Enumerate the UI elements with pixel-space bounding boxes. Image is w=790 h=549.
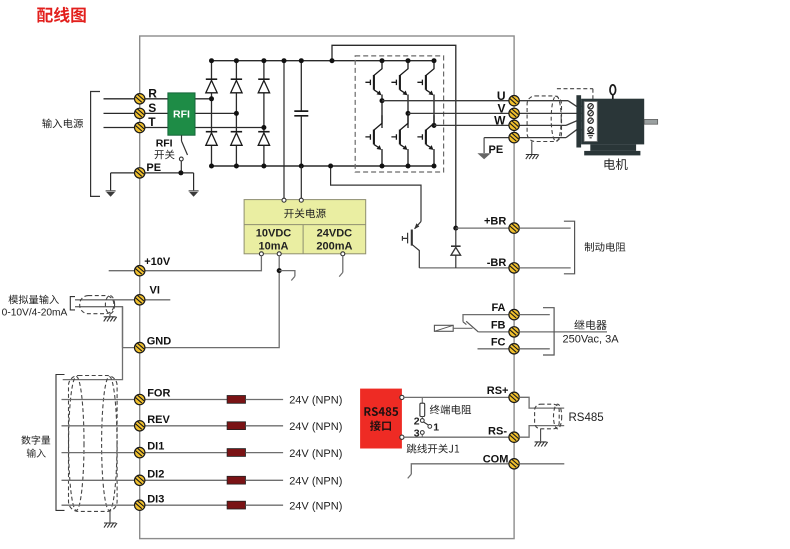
label 24VDC [317, 228, 353, 240]
digital bracket [56, 375, 65, 511]
label 24V (NPN) 1 [289, 395, 342, 407]
label 10VDC [256, 228, 292, 240]
wire phase drop col1 [381, 101, 383, 128]
RS485 pin + [400, 395, 404, 399]
svg-text:10mA: 10mA [259, 240, 289, 252]
wire PE right drop [193, 173, 195, 190]
terminal DI1 [135, 447, 145, 457]
label 终端电阻 [430, 405, 471, 415]
motor flange [576, 95, 581, 147]
relay contact blade [466, 321, 478, 332]
wire analog shield drain [109, 314, 111, 317]
label 继电器 [574, 320, 606, 330]
wire digital shield gnd [109, 511, 111, 522]
label T [148, 115, 156, 129]
diode D1 (upper) [206, 79, 217, 93]
label PE (output) [489, 144, 504, 156]
terminal FB [509, 327, 519, 337]
wire pin3 drop [421, 434, 423, 437]
wire cap top [300, 61, 302, 111]
terminal -BR [509, 263, 519, 273]
label +BR [484, 216, 506, 228]
wire W kink [566, 121, 589, 126]
svg-text:S: S [148, 101, 156, 115]
label 0-10V/4-20mA [2, 307, 68, 318]
IGBT Q1 (upper) [365, 61, 382, 101]
wire PE left drop [110, 173, 112, 190]
svg-text:PE: PE [489, 144, 504, 156]
terminal PE out [509, 132, 519, 142]
label S [148, 101, 156, 115]
wire FOR [62, 399, 228, 401]
IGBT Q6 (lower) [417, 115, 434, 166]
IGBT Q3 (upper) [417, 61, 434, 126]
title text 配线图 [37, 7, 85, 23]
svg-text:DI2: DI2 [147, 468, 164, 480]
label pin 2 [414, 416, 420, 428]
motor terminal 2 [588, 111, 593, 116]
svg-text:DI1: DI1 [147, 441, 164, 453]
terminal resistor [420, 397, 425, 418]
svg-text:FB: FB [491, 319, 506, 331]
junction phase out 2 [406, 111, 411, 116]
jumper blade [424, 422, 429, 425]
terminal COM [509, 459, 519, 469]
wire -BR [419, 267, 509, 269]
wire -BR ext [519, 267, 571, 269]
wire FB left [478, 331, 509, 333]
analog shield [80, 296, 115, 314]
brake diode D7 [451, 228, 461, 268]
label 制动电阻 [585, 242, 626, 252]
wire FC ext [519, 348, 550, 350]
resistor RDI1 [227, 449, 245, 457]
analog bracket [70, 297, 75, 310]
IGBT Q5 (lower) [391, 115, 408, 166]
label 电机 [605, 159, 628, 171]
input bracket [91, 92, 100, 197]
label 跳线开关J1 [407, 444, 459, 454]
junction phase 3 [261, 125, 266, 130]
inverter dashed box [355, 56, 443, 172]
wire diode column 1 [211, 61, 213, 166]
svg-text:RS+: RS+ [487, 385, 509, 397]
terminal VI [135, 295, 145, 305]
label FB [491, 319, 506, 331]
terminal T [135, 122, 145, 132]
terminal W [509, 120, 519, 130]
terminal DI3 [135, 500, 145, 510]
drive enclosure box [140, 36, 514, 539]
wire +BR ext [519, 227, 571, 229]
terminal U [509, 96, 519, 106]
svg-text:FOR: FOR [147, 388, 170, 400]
label 250Vac 3A [562, 334, 619, 346]
diode D3 (upper) [258, 79, 269, 93]
junction DC+ col3 [261, 58, 266, 63]
ground PE left [106, 191, 116, 197]
wire 10V common [123, 256, 280, 348]
wire T [104, 127, 168, 129]
label 接口 [370, 421, 391, 432]
junction cap DC+ [299, 58, 304, 63]
junction inverter DC- col1 [380, 164, 385, 169]
label DI3 [147, 493, 164, 505]
wire FB ext [519, 331, 607, 333]
svg-text:24VDC: 24VDC [317, 228, 353, 240]
svg-text:T: T [148, 115, 156, 129]
terminal RS+ [509, 392, 519, 402]
svg-text:RS-: RS- [488, 426, 507, 438]
label 数字量 [21, 435, 50, 444]
junction phase 2 [234, 111, 239, 116]
RFI switch [179, 135, 187, 170]
label +10V [144, 256, 171, 268]
wire U [382, 100, 568, 102]
PSU input pin A [282, 198, 286, 202]
PSU output pin 10V-com [277, 252, 281, 256]
RFI filter block [168, 93, 195, 135]
svg-text:VI: VI [150, 285, 160, 297]
digital shield [69, 376, 118, 512]
terminal +10V [135, 266, 145, 276]
motor body [581, 99, 644, 145]
junction DC+ col2 [234, 58, 239, 63]
PSU input pin B [299, 198, 303, 202]
wire diode column 2 [235, 61, 237, 166]
wire PE row [111, 172, 194, 174]
wire VI [75, 299, 170, 301]
label R [148, 86, 157, 100]
svg-text:DI3: DI3 [147, 493, 164, 505]
junction DC- col3 [261, 164, 266, 169]
label RFI 开关 (RFI switch) [155, 138, 175, 160]
svg-text:RFI: RFI [156, 138, 173, 150]
PSU block 开关电源 [244, 200, 366, 254]
label 200mA [316, 240, 352, 252]
label DI2 [147, 468, 164, 480]
svg-text:24V (NPN): 24V (NPN) [289, 476, 342, 488]
wire common tap hook [279, 271, 295, 281]
svg-text:0-10V/4-20mA: 0-10V/4-20mA [2, 307, 68, 318]
resistor RFOR [227, 396, 245, 404]
terminal FC [509, 344, 519, 354]
wire PSU feed A [283, 61, 285, 199]
wire V [408, 112, 585, 114]
wire brake collector [331, 166, 421, 222]
wire COM ext [519, 463, 564, 465]
wire shield drain [531, 142, 533, 155]
svg-text:W: W [494, 114, 506, 128]
resistor RDI3 [227, 501, 245, 509]
label pin 1 [433, 422, 439, 434]
brake IGBT Q7 [402, 222, 421, 268]
label FC [491, 336, 506, 348]
terminal FA [509, 309, 519, 319]
svg-text:REV: REV [147, 414, 170, 426]
junction feed A [282, 58, 287, 63]
label 24V (NPN) 2 [289, 421, 342, 433]
junction DC- brake [328, 164, 333, 169]
wire R to bridge [195, 98, 212, 100]
label REV [147, 414, 170, 426]
motor base [584, 151, 640, 156]
label 输入电源 [42, 119, 83, 129]
svg-text:24V (NPN): 24V (NPN) [289, 500, 342, 512]
wire REV right [246, 425, 284, 427]
wire RS485 shield drain [540, 429, 542, 442]
wire PE motor [484, 137, 566, 139]
svg-text:COM: COM [483, 453, 509, 465]
motor terminal plate [584, 102, 597, 142]
label 模拟量输入 [9, 295, 59, 304]
junction cap DC- [299, 164, 304, 169]
wire S [104, 112, 168, 114]
relay coil [434, 325, 472, 331]
label COM [483, 453, 509, 465]
wire R [104, 98, 168, 100]
wire DI3 right [246, 504, 284, 506]
terminal PE in [135, 168, 145, 178]
wire +10V [109, 256, 262, 271]
wire DI1 [62, 452, 228, 454]
svg-text:GND: GND [147, 335, 172, 347]
resistor RDI2 [227, 476, 245, 484]
shield link to motor [557, 89, 593, 99]
label V [497, 102, 505, 116]
wire FOR right [246, 399, 284, 401]
wire diode column 3 [263, 61, 265, 166]
svg-text:PE: PE [146, 162, 161, 174]
label RS485 (block) [364, 407, 398, 416]
ground RS485 shield [535, 442, 548, 447]
svg-text:FC: FC [491, 336, 506, 348]
label -BR [487, 257, 507, 269]
wire RS+ ext [519, 397, 564, 408]
svg-text:RFI: RFI [173, 109, 190, 121]
terminal GND [135, 342, 145, 352]
terminal +BR [509, 223, 519, 233]
wire RS- ext [519, 426, 564, 438]
wire DC+ rail [332, 45, 456, 228]
wire DI2 right [246, 479, 284, 481]
PSU output pin 10V [259, 252, 263, 256]
svg-text:+10V: +10V [144, 256, 171, 268]
wire W [434, 124, 566, 126]
wire DI1 right [246, 452, 284, 454]
diode D2 (upper) [231, 79, 242, 93]
label FA [491, 302, 505, 314]
capacitor C1 [294, 111, 308, 116]
junction phase out 3 [432, 123, 437, 128]
wire DI3 [62, 504, 228, 506]
label U [497, 89, 506, 103]
svg-text:24V (NPN): 24V (NPN) [289, 421, 342, 433]
brake resistor bracket [564, 221, 575, 274]
DC+ bus [212, 60, 435, 62]
junction DC+ rail [330, 58, 335, 63]
PE arrow symbol [477, 138, 490, 160]
terminal FOR [135, 394, 145, 404]
wire S to bridge [195, 112, 236, 114]
wire COM left [408, 464, 509, 479]
diode D5 (lower) [231, 132, 242, 146]
label 开关电源 [284, 208, 326, 218]
ground digital shield [104, 523, 117, 528]
label FOR [147, 388, 170, 400]
wire RS+ row [404, 396, 509, 398]
motor terminal 4 [588, 127, 593, 132]
jumper pin 2 [420, 419, 424, 423]
jumper pin 1 [428, 425, 432, 429]
svg-text:24V (NPN): 24V (NPN) [289, 395, 342, 407]
DC- bus [212, 165, 435, 167]
wire U kink [568, 101, 589, 107]
junction +BR [453, 226, 458, 231]
motor cable shield [527, 96, 561, 142]
label 输入 [27, 449, 46, 458]
wire 24V output [339, 256, 343, 277]
svg-text:2: 2 [414, 416, 420, 428]
terminal S [135, 108, 145, 118]
svg-text:250Vac, 3A: 250Vac, 3A [562, 334, 619, 346]
ground RFI switch [189, 191, 199, 197]
junction inverter DC- col2 [406, 164, 411, 169]
RS485 pin - [400, 435, 404, 439]
ground motor shield [526, 155, 539, 160]
diode D6 (lower) [258, 132, 269, 146]
terminal R [135, 94, 145, 104]
svg-text:-BR: -BR [487, 257, 507, 269]
svg-text:1: 1 [433, 422, 439, 434]
wire VI shield lower [75, 307, 123, 348]
label pin 3 [414, 428, 420, 440]
IGBT Q4 (lower) [365, 115, 382, 166]
wire +BR [456, 227, 509, 229]
wire DI2 [62, 479, 228, 481]
label 10mA [259, 240, 289, 252]
svg-text:24V (NPN): 24V (NPN) [289, 448, 342, 460]
label GND [147, 335, 172, 347]
junction DC- col1 [209, 164, 214, 169]
wire digital shield drain [63, 307, 123, 380]
label 24V (NPN) 5 [289, 500, 342, 512]
label W [494, 114, 506, 128]
wire FC left [478, 348, 510, 350]
motor pedestal [590, 144, 636, 151]
wire phase drop col2 [407, 113, 409, 128]
junction phase out 1 [380, 98, 385, 103]
wire REV [62, 425, 228, 427]
svg-text:10VDC: 10VDC [256, 228, 292, 240]
wire RS- row [404, 436, 509, 438]
resistor RREV [227, 422, 245, 430]
RS485 interface block [360, 389, 402, 449]
label RS- [488, 426, 507, 438]
junction 10V common [277, 268, 282, 273]
IGBT Q2 (upper) [391, 61, 408, 114]
wire PE kink [566, 130, 589, 138]
svg-text:RS485: RS485 [569, 412, 604, 424]
label 24V (NPN) 3 [289, 448, 342, 460]
motor terminal 3 [588, 118, 593, 123]
diode D4 (lower) [206, 132, 217, 146]
motor eye bolt [610, 85, 616, 99]
junction inverter DC+ col2 [406, 58, 411, 63]
junction DC- col2 [234, 164, 239, 169]
terminal DI2 [135, 475, 145, 485]
wire phase drop col3 [433, 125, 435, 128]
wire PSU feed B [300, 166, 302, 198]
motor terminal 1 [588, 104, 593, 109]
svg-text:FA: FA [491, 302, 505, 314]
motor shaft [644, 119, 658, 124]
junction inverter DC+ col1 [380, 58, 385, 63]
wire FA ext [519, 314, 550, 316]
svg-text:R: R [148, 86, 157, 100]
junction DC+ col1 [209, 58, 214, 63]
svg-text:200mA: 200mA [316, 240, 352, 252]
relay bracket [543, 308, 554, 355]
label RS485 (cable) [569, 412, 604, 424]
label 24V (NPN) 4 [289, 476, 342, 488]
junction inverter DC- col3 [432, 164, 437, 169]
label PE (input) [146, 162, 161, 174]
ground analog shield [104, 317, 117, 322]
junction phase 1 [209, 96, 214, 101]
wire FA [463, 315, 509, 325]
label VI [150, 285, 160, 297]
jumper pin 3 [420, 431, 424, 435]
terminal V [509, 108, 519, 118]
motor earth symbol [587, 133, 594, 138]
svg-text:+BR: +BR [484, 216, 506, 228]
PSU output pin 24V [341, 252, 345, 256]
terminal REV [135, 421, 145, 431]
RS485 cable shield [535, 404, 562, 429]
junction PE-switch [178, 170, 183, 175]
wire cap bottom [300, 116, 302, 166]
label RS+ [487, 385, 509, 397]
wire T to bridge [195, 127, 264, 129]
terminal RS- [509, 432, 519, 442]
label DI1 [147, 441, 164, 453]
junction inverter DC+ col3 [432, 58, 437, 63]
svg-text:3: 3 [414, 428, 420, 440]
